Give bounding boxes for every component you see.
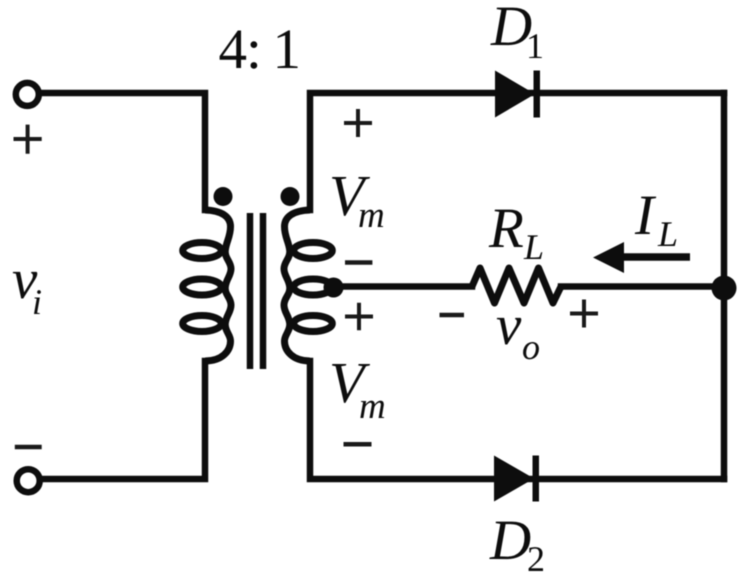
label v_i	[13, 272, 41, 314]
label V_m top: m subscript	[359, 210, 383, 227]
label D_2	[489, 522, 543, 571]
primary loop 3	[183, 316, 222, 332]
label D_2: D	[489, 522, 530, 559]
label I_L: I	[635, 197, 656, 234]
label D_1: 1 subscript	[529, 34, 542, 58]
label R_L: R	[489, 210, 523, 247]
node: center tap junction dot	[324, 278, 344, 298]
label V_m bottom: m subscript	[360, 401, 384, 418]
diode D1	[495, 71, 540, 118]
label V_m top	[332, 177, 383, 227]
primary right strand with hooks	[205, 210, 231, 361]
primary loop 1	[183, 243, 222, 259]
wire: primary bottom lead to bottom-left terminal	[42, 361, 205, 479]
resistor R_L zigzag	[472, 268, 561, 303]
label D_1	[490, 8, 541, 58]
label R_L: L subscript	[524, 235, 543, 259]
plus sign: right of v_o	[570, 300, 598, 328]
secondary left strand with hooks	[284, 210, 310, 361]
wire: bottom rail from right to secondary bottom lead	[310, 361, 724, 479]
label v_o	[497, 318, 539, 360]
transformer core lines	[250, 213, 263, 369]
wire: center-tap output wire left of resistor	[330, 283, 472, 290]
polarity dot secondary	[281, 187, 300, 206]
primary loop 2	[183, 279, 222, 295]
label V_m top: V	[332, 177, 370, 216]
node: output junction dot on right rail	[712, 276, 737, 301]
label v_i: i subscript	[34, 290, 41, 314]
label v_o: v	[497, 318, 522, 345]
polarity dot primary	[214, 187, 233, 206]
label v_i: v	[13, 272, 38, 299]
label 4:1: 1	[278, 30, 298, 68]
plus sign: secondary top	[344, 109, 372, 137]
plus sign: input top	[14, 125, 42, 154]
transformer: secondary coil	[284, 210, 332, 361]
plus sign: secondary bottom winding	[345, 303, 373, 331]
minus sign: secondary top winding	[345, 260, 372, 265]
wire: output wire right of resistor to junction	[561, 283, 724, 290]
secondary loop 3	[294, 316, 333, 332]
label I_L	[635, 197, 677, 246]
label R_L	[489, 210, 543, 259]
secondary loop 2	[294, 279, 333, 295]
terminal: input top circle	[16, 83, 39, 106]
wire: top-left from input terminal to transformer primary top	[42, 93, 205, 210]
label I_L: L subscript	[658, 222, 677, 246]
label D_1: D	[490, 8, 531, 45]
terminal: input bottom circle	[17, 469, 40, 492]
diode D2	[494, 456, 539, 502]
minus sign: input bottom	[15, 445, 42, 450]
minus sign: secondary bottom	[344, 442, 372, 447]
label V_m bottom: V	[332, 364, 370, 403]
transformer: primary coil	[183, 210, 231, 361]
secondary loop 1	[294, 243, 333, 259]
minus sign: left of v_o	[440, 313, 465, 318]
label v_o: o subscript	[523, 342, 539, 359]
label 4:1: colon	[251, 41, 258, 69]
label D_2: 2 subscript	[529, 547, 543, 571]
wire: right vertical rail	[721, 93, 728, 479]
wire: secondary top lead to top rail through D1 to right rail	[310, 93, 724, 210]
label V_m bottom	[332, 364, 384, 418]
label 4:1: 4	[220, 30, 247, 68]
current arrow I_L	[593, 242, 690, 273]
